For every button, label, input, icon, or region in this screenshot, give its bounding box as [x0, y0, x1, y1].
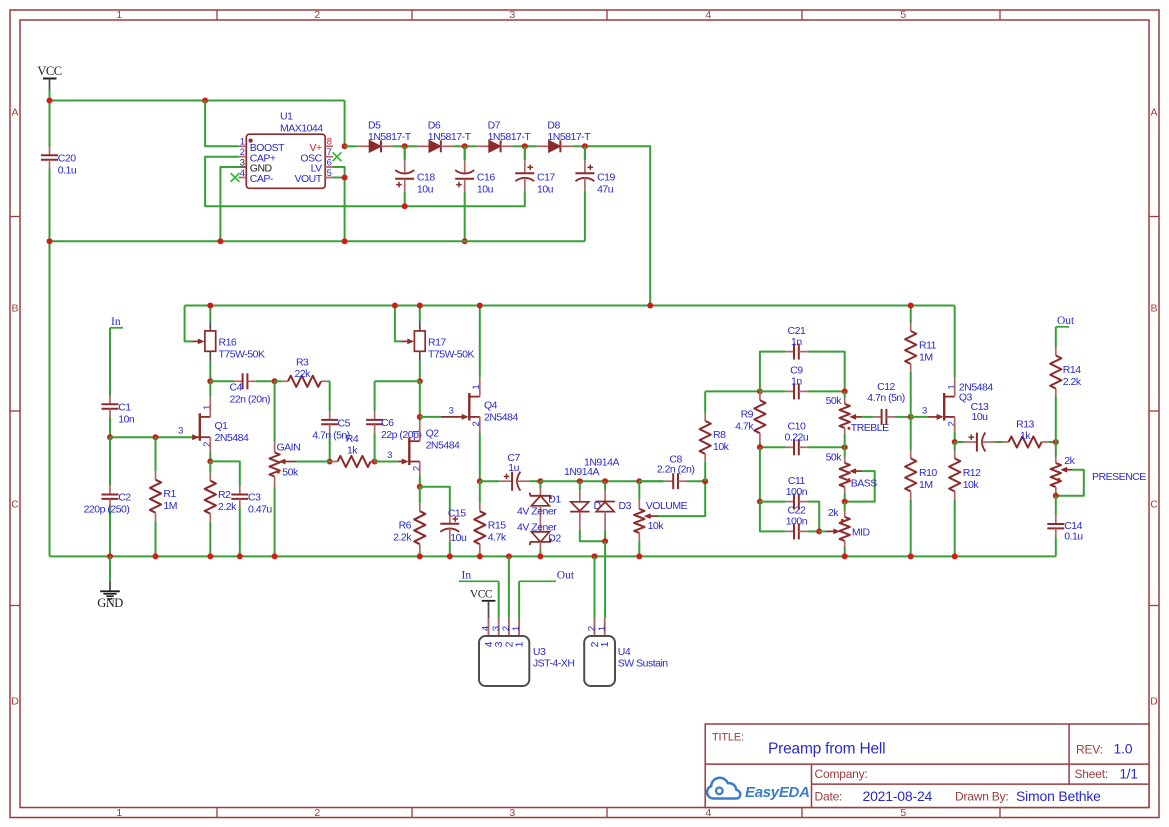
svg-text:Simon Bethke: Simon Bethke: [1016, 788, 1101, 804]
svg-text:1N5817-T: 1N5817-T: [428, 131, 472, 143]
svg-text:PRESENCE: PRESENCE: [1092, 471, 1146, 483]
label BASS: [851, 477, 878, 489]
label TREBLE value: [826, 395, 843, 407]
svg-text:B: B: [1151, 303, 1158, 315]
svg-text:220p (250): 220p (250): [84, 504, 130, 516]
connector U3 JST-4-XH: [479, 618, 529, 686]
node Q3 source: [952, 439, 958, 445]
node BASS bottom: [842, 499, 848, 505]
svg-text:0.47u: 0.47u: [248, 504, 272, 516]
svg-text:0.22u: 0.22u: [785, 432, 809, 444]
svg-text:CAP-: CAP-: [250, 173, 274, 185]
resistor R2 2.2k: [205, 461, 216, 556]
wire VCC drop: [49, 90, 51, 147]
label R1: [163, 488, 177, 512]
diode D4 1N914A: [570, 481, 605, 541]
svg-text:C3: C3: [248, 492, 261, 504]
svg-text:C16: C16: [477, 172, 495, 184]
resistor R12 10k: [949, 442, 960, 556]
svg-text:Company:: Company:: [815, 767, 868, 781]
node VCC rail left: [47, 98, 53, 104]
svg-text:3: 3: [509, 9, 515, 21]
capacitor C16: [455, 146, 474, 241]
wire U1 CAP+ loop: [205, 157, 525, 207]
svg-text:Q2: Q2: [426, 428, 440, 440]
svg-text:C: C: [11, 499, 19, 511]
label Q4: [484, 399, 518, 423]
label R13: [1016, 419, 1034, 442]
svg-text:TITLE:: TITLE:: [712, 732, 744, 744]
resistor R4 1k: [330, 456, 378, 467]
node Q2 source: [417, 484, 423, 490]
svg-text:D5: D5: [368, 120, 381, 132]
svg-text:Drawn By:: Drawn By:: [955, 790, 1009, 804]
svg-text:8: 8: [327, 137, 332, 148]
svg-text:2: 2: [411, 466, 422, 471]
resistor R15 4.7k: [474, 481, 485, 556]
diode D8 1N5817-T: [525, 140, 585, 152]
svg-text:5: 5: [327, 168, 332, 179]
svg-text:C15: C15: [448, 507, 466, 519]
label TREBLE: [851, 422, 889, 434]
svg-text:10u: 10u: [971, 411, 988, 423]
svg-text:4.7k: 4.7k: [488, 532, 507, 544]
svg-text:1: 1: [202, 405, 213, 410]
svg-text:50k: 50k: [826, 451, 843, 463]
svg-text:In: In: [462, 570, 472, 582]
capacitor C14 0.1u: [1047, 496, 1064, 557]
label D3: [619, 500, 632, 512]
potentiometer PRESENCE 2k: [1051, 442, 1061, 496]
node R17 top: [417, 303, 423, 309]
label C13: [971, 401, 989, 423]
node C10 right: [842, 444, 848, 450]
node C16 bottom: [462, 238, 468, 244]
svg-text:1: 1: [514, 641, 526, 647]
label Q2: [426, 428, 460, 452]
svg-text:1/1: 1/1: [1120, 767, 1138, 782]
label C21: [788, 325, 806, 348]
node ground U3pin2: [506, 553, 512, 559]
node D6 anode: [462, 143, 468, 149]
svg-text:D2: D2: [548, 533, 561, 545]
node VOUT: [342, 175, 348, 181]
svg-text:1: 1: [411, 429, 422, 434]
svg-text:22k: 22k: [294, 368, 311, 380]
label Q1: [215, 420, 249, 444]
resistor R6 2.2k: [414, 487, 425, 557]
capacitor C20: [41, 147, 58, 242]
svg-text:4.7n (5n): 4.7n (5n): [312, 430, 350, 442]
node VOUT drop: [342, 238, 348, 244]
wire R16 wiper loop: [185, 306, 193, 342]
capacitor C19: [575, 146, 594, 241]
label C2: [84, 492, 132, 516]
svg-text:Out: Out: [1057, 315, 1075, 327]
svg-text:10u: 10u: [477, 184, 494, 196]
svg-text:C1: C1: [118, 401, 131, 413]
potentiometer VOLUME 10k: [634, 481, 644, 556]
node GAIN wiper dot: [277, 471, 280, 474]
svg-text:2N5484: 2N5484: [484, 411, 518, 423]
svg-text:Out: Out: [557, 570, 575, 582]
ground GND: [97, 556, 123, 610]
capacitor C13 10u: [955, 433, 1003, 452]
label R2: [218, 489, 237, 513]
wire VOLUME wiper: [644, 481, 705, 519]
label C15: [448, 507, 467, 544]
label PRESENCE: [1092, 471, 1146, 483]
node VCC rail U1 tap: [202, 98, 208, 104]
wire ground rail: [50, 555, 1056, 557]
svg-text:2: 2: [314, 807, 320, 819]
svg-text:2k: 2k: [828, 507, 839, 519]
wire V+ supply rail: [185, 305, 955, 307]
node C7 right: [537, 478, 543, 484]
capacitor C2: [102, 437, 119, 556]
capacitor C12: [871, 409, 911, 425]
svg-text:50k: 50k: [282, 466, 299, 478]
svg-text:U3: U3: [533, 646, 546, 658]
svg-text:D6: D6: [428, 120, 441, 132]
wire Q2 gate: [375, 461, 404, 463]
svg-text:JST-4-XH: JST-4-XH: [533, 658, 575, 670]
svg-text:A: A: [1151, 107, 1158, 119]
wire Q2 source: [419, 462, 421, 487]
wire U4 pin2 gnd: [594, 556, 596, 618]
wire TREBLE wiper: [849, 414, 871, 420]
svg-text:4: 4: [705, 9, 711, 21]
svg-text:1N5817-T: 1N5817-T: [547, 131, 591, 143]
wire to U4 pin1: [604, 541, 606, 618]
wire Q1 gate rail: [110, 436, 199, 438]
wire U3 pin1 Out: [518, 581, 520, 618]
resistor R8 10k: [700, 391, 760, 481]
node V+ pin8: [342, 143, 348, 149]
label C7: [507, 452, 520, 474]
svg-text:Sheet:: Sheet:: [1075, 767, 1109, 781]
label U4: [618, 646, 669, 670]
label C3: [248, 492, 272, 516]
svg-text:10u: 10u: [450, 532, 467, 544]
node Q4 gate tap: [417, 414, 423, 420]
svg-text:GAIN: GAIN: [277, 441, 301, 453]
transistor Q3 2N5484: [937, 393, 955, 421]
svg-text:3: 3: [922, 405, 927, 416]
capacitor C21 1n: [781, 344, 812, 360]
svg-text:2k: 2k: [1064, 455, 1075, 467]
title block TITLE label: [712, 732, 744, 744]
svg-text:D8: D8: [547, 120, 560, 132]
capacitor C10 0.22u: [760, 439, 845, 455]
label VOLUME value: [648, 520, 665, 532]
capacitor C3 0.47u: [231, 486, 248, 557]
label Q1 pin3: [178, 426, 183, 437]
label Q1 pin2: [202, 442, 213, 447]
transistor Q4 2N5484: [462, 393, 480, 421]
node R1 top: [153, 434, 159, 440]
svg-text:2: 2: [946, 421, 957, 426]
node C12 right: [908, 414, 914, 420]
svg-text:10n: 10n: [118, 413, 135, 425]
wire ground return rail: [50, 240, 585, 242]
svg-text:VCC: VCC: [470, 588, 493, 600]
svg-text:TREBLE: TREBLE: [851, 422, 889, 434]
wire U1 GND drop: [220, 167, 238, 241]
node D7 anode: [522, 143, 528, 149]
svg-text:VCC: VCC: [37, 64, 61, 78]
svg-text:C6: C6: [381, 417, 394, 429]
node D4 top: [577, 478, 583, 484]
label C4: [230, 382, 270, 406]
svg-text:2: 2: [314, 9, 320, 21]
node ground C3: [237, 553, 243, 559]
potentiometer MID 2k: [840, 502, 850, 557]
svg-text:3: 3: [240, 157, 245, 168]
label R11: [919, 340, 937, 364]
svg-text:1.0: 1.0: [1114, 741, 1133, 757]
label R8: [713, 429, 730, 453]
svg-text:VOUT: VOUT: [295, 173, 323, 185]
svg-text:2: 2: [202, 442, 213, 447]
EasyEDA logo: [707, 778, 810, 801]
svg-text:1: 1: [597, 626, 608, 631]
svg-text:5: 5: [900, 9, 906, 21]
svg-text:4V Zener: 4V Zener: [517, 506, 557, 518]
no-connect X pin4 CAP-: [231, 173, 240, 182]
resistor R9 4.7k: [754, 391, 765, 447]
net label In: [110, 316, 123, 328]
capacitor C18: [395, 146, 414, 206]
capacitor C5: [321, 381, 338, 461]
label D4: [594, 500, 607, 512]
capacitor C1: [102, 328, 119, 437]
capacitor C4: [210, 373, 274, 389]
resistor R1 1M: [150, 437, 161, 556]
wire U1 BOOST to rail: [205, 101, 239, 147]
node D3 top: [602, 478, 608, 484]
resistor R13 1k: [1002, 436, 1056, 447]
svg-text:4.7n (5n): 4.7n (5n): [867, 392, 905, 404]
resistor R11 1M: [905, 306, 916, 417]
label C20: [58, 153, 77, 177]
wire Q1 source: [209, 437, 211, 461]
node ground U4pin2: [592, 553, 598, 559]
svg-text:Q4: Q4: [484, 399, 498, 411]
node C10 left: [757, 444, 763, 450]
svg-text:C20: C20: [58, 153, 76, 165]
svg-text:3: 3: [387, 450, 392, 461]
label Q3 pin2: [946, 421, 957, 426]
node R16 top: [207, 303, 213, 309]
zener D2 4V: [530, 532, 552, 557]
node ground R6: [417, 553, 423, 559]
svg-text:22n (20n): 22n (20n): [230, 394, 270, 406]
svg-text:3: 3: [509, 807, 515, 819]
label D4 value: [564, 466, 599, 478]
wire clipper rail: [540, 480, 663, 482]
node ground R15: [477, 553, 483, 559]
diode D5 1N5817-T: [345, 140, 405, 152]
power flag VCC at U3: [470, 588, 495, 618]
Date label: [815, 790, 843, 804]
svg-text:10k: 10k: [963, 479, 980, 491]
node supply from pump: [647, 303, 653, 309]
label GAIN value: [282, 466, 299, 478]
capacitor C22 100n: [781, 523, 819, 539]
node Q4 source: [477, 478, 483, 484]
capacitor C6: [366, 381, 420, 461]
wire U1 LV to VOUT: [333, 167, 345, 178]
svg-text:A: A: [12, 107, 19, 119]
capacitor C15: [440, 511, 459, 556]
label U1: [280, 111, 323, 135]
label Q4 pin1: [471, 384, 482, 389]
svg-text:VOLUME: VOLUME: [646, 500, 688, 512]
svg-text:1u: 1u: [508, 462, 519, 474]
svg-text:3: 3: [178, 426, 183, 437]
node R4 right: [372, 459, 378, 465]
svg-text:GND: GND: [97, 596, 123, 610]
wire U3 pin2 gnd: [508, 556, 510, 618]
no-connect X pin7 OSC: [333, 152, 342, 161]
svg-text:R12: R12: [963, 467, 981, 479]
label R12: [963, 467, 981, 491]
diode D3 1N914A: [595, 481, 615, 541]
node C22 right: [816, 528, 822, 534]
zener D1 4V: [530, 481, 552, 532]
svg-text:R4: R4: [346, 433, 359, 445]
svg-text:Preamp from Hell: Preamp from Hell: [768, 741, 885, 758]
svg-text:6: 6: [327, 157, 332, 168]
svg-text:Date:: Date:: [815, 790, 843, 804]
svg-text:2.2k: 2.2k: [1063, 376, 1082, 388]
label R14: [1063, 364, 1082, 388]
label C5: [312, 417, 350, 441]
node C9 right: [842, 388, 848, 394]
node R17 bottom: [417, 378, 423, 384]
svg-text:1: 1: [240, 137, 245, 148]
trimmer R16 T75W-50K: [193, 306, 216, 382]
wire R17 wiper loop: [395, 306, 402, 342]
wire left column: [49, 241, 51, 556]
node ground GAIN: [272, 553, 278, 559]
svg-text:2.2k: 2.2k: [218, 501, 237, 513]
REV value 1.0: [1114, 741, 1133, 757]
svg-text:D7: D7: [488, 120, 501, 132]
wire C22 left loop: [760, 502, 781, 532]
wire Q4 gate: [420, 416, 463, 418]
node R16 bottom: [207, 378, 213, 384]
label GAIN: [277, 441, 301, 453]
wire R9 to C11: [759, 447, 761, 501]
label C18: [417, 172, 435, 196]
wire Q3 source: [954, 417, 956, 442]
svg-text:R15: R15: [488, 520, 506, 532]
label R16: [219, 337, 265, 361]
net label In at U3: [459, 570, 499, 582]
Sheet value 1/1: [1120, 767, 1138, 782]
label D3 value: [584, 457, 619, 469]
svg-text:10k: 10k: [648, 520, 665, 532]
node ground MID: [842, 553, 848, 559]
Date value: [863, 788, 933, 804]
svg-text:R2: R2: [218, 489, 231, 501]
svg-text:100n: 100n: [786, 516, 808, 528]
node R13 right: [1053, 439, 1059, 445]
title text Preamp from Hell: [768, 741, 885, 758]
wire GAIN wiper: [279, 459, 330, 465]
svg-text:R1: R1: [163, 488, 176, 500]
node MID wiper dot: [841, 519, 844, 522]
label Q2 pin3: [387, 450, 392, 461]
svg-text:R16: R16: [219, 337, 237, 349]
svg-text:2.2n (2n): 2.2n (2n): [657, 463, 695, 475]
svg-text:R13: R13: [1016, 419, 1034, 431]
svg-text:2N5484: 2N5484: [215, 432, 249, 444]
svg-text:4: 4: [240, 168, 245, 179]
svg-text:MID: MID: [852, 526, 871, 538]
node Q1 source: [207, 458, 213, 464]
svg-text:R11: R11: [919, 340, 937, 352]
svg-text:T75W-50K: T75W-50K: [219, 349, 265, 361]
svg-text:1k: 1k: [347, 445, 358, 457]
wire U3 pin3 In: [498, 581, 500, 618]
node C1 bottom: [107, 434, 113, 440]
label C22: [786, 505, 808, 528]
svg-text:47u: 47u: [597, 184, 614, 196]
label Q4 pin2: [471, 421, 482, 426]
label R9: [735, 408, 754, 432]
svg-text:D: D: [11, 696, 19, 708]
label D7: [488, 120, 532, 143]
svg-text:10k: 10k: [713, 441, 730, 453]
node ground R1: [153, 553, 159, 559]
svg-text:1: 1: [116, 807, 122, 819]
node C9 left: [757, 388, 763, 394]
svg-text:5: 5: [900, 807, 906, 819]
svg-text:MAX1044: MAX1044: [280, 123, 323, 135]
svg-text:B: B: [12, 303, 19, 315]
node ground C2: [107, 553, 113, 559]
node ground C15: [447, 553, 453, 559]
svg-text:R10: R10: [919, 467, 937, 479]
svg-text:1n: 1n: [791, 336, 802, 348]
svg-text:2021-08-24: 2021-08-24: [863, 788, 933, 804]
capacitor C17: [515, 146, 534, 196]
svg-text:C5: C5: [338, 417, 351, 429]
svg-text:4: 4: [705, 807, 711, 819]
node VOLUME top: [636, 478, 642, 484]
label BASS value: [826, 451, 843, 463]
label C1: [118, 401, 135, 425]
wire Q1 drain: [209, 381, 211, 417]
svg-text:2.2k: 2.2k: [393, 532, 412, 544]
label MID: [852, 526, 871, 538]
svg-text:4V Zener: 4V Zener: [517, 521, 557, 533]
label R15: [488, 520, 507, 544]
svg-text:D1: D1: [548, 494, 561, 506]
svg-text:1N914A: 1N914A: [584, 457, 619, 469]
Company label: [815, 767, 868, 781]
label C19: [597, 172, 615, 196]
svg-text:10u: 10u: [417, 184, 434, 196]
Drawn By value Simon Bethke: [1016, 788, 1101, 804]
node C5 bottom: [327, 459, 333, 465]
wire MID wiper: [819, 529, 840, 535]
svg-text:C2: C2: [118, 492, 131, 504]
svg-text:C4: C4: [230, 382, 243, 394]
